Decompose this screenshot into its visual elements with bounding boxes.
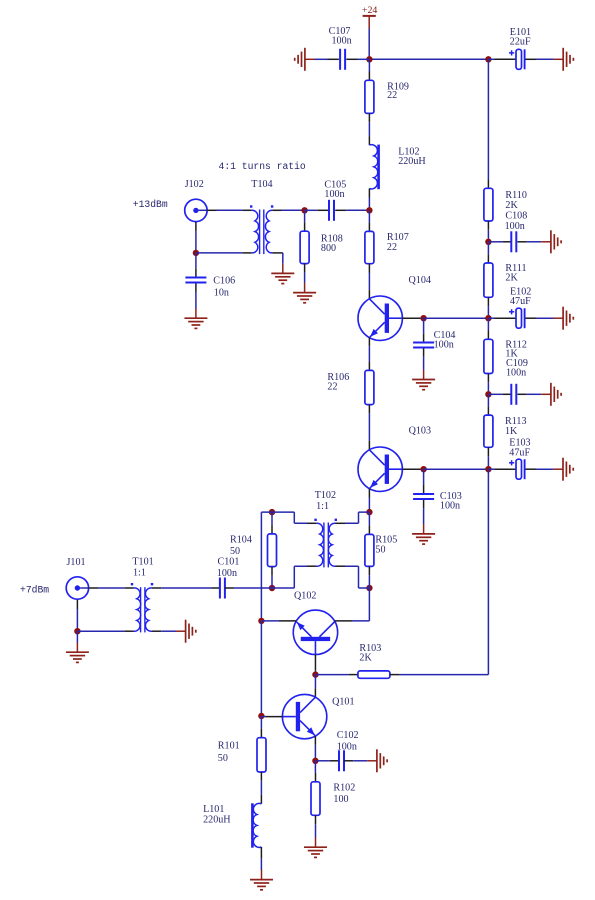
wire node J down to R105 bbox=[368, 512, 370, 526]
ground right of E102 bbox=[554, 307, 574, 330]
ground right of T101 bbox=[176, 620, 196, 643]
capacitor C106 bbox=[185, 278, 206, 283]
wire R107 to Q104 collector bbox=[368, 273, 370, 291]
node B junction top rail right bbox=[485, 56, 491, 62]
wire T104 secondary to node D bbox=[282, 209, 305, 211]
svg-text:220uH: 220uH bbox=[398, 156, 425, 167]
pin R106 pin 1 bbox=[368, 362, 370, 371]
svg-text:J101: J101 bbox=[67, 557, 86, 568]
wire C103 to ground bbox=[423, 508, 425, 524]
wire C102 to ground bbox=[353, 760, 367, 762]
wire node T to R103 bbox=[315, 674, 348, 676]
wire node C down to R107 bbox=[368, 210, 370, 222]
pin R104 pin 2 bbox=[271, 567, 273, 576]
wire C104 to ground bbox=[423, 357, 425, 370]
node L junction C109 bbox=[485, 391, 491, 397]
ground below J101 bbox=[66, 642, 89, 662]
pin L102 pin 1 bbox=[368, 136, 370, 145]
svg-text:100n: 100n bbox=[217, 568, 237, 579]
wire node R down to R101 bbox=[260, 716, 262, 729]
svg-text:2K: 2K bbox=[359, 653, 372, 664]
pin R109 pin 2 bbox=[368, 113, 370, 122]
svg-text:50: 50 bbox=[230, 546, 240, 557]
wire T101 secondary to C101 bbox=[161, 587, 211, 589]
ground right of C109 bbox=[541, 383, 561, 406]
pin Q104 emitter pin bbox=[368, 337, 370, 346]
pin R113 pin 2 bbox=[487, 447, 489, 456]
ground below C106 bbox=[184, 308, 207, 328]
node S junction below J101 bbox=[74, 628, 80, 634]
resistor R107 bbox=[365, 231, 374, 263]
pin E102 negative pin bbox=[526, 317, 537, 319]
pin J102 signal pin bbox=[207, 209, 216, 211]
pin R112 pin 2 bbox=[487, 374, 489, 383]
ground right of C102 bbox=[367, 749, 387, 772]
wire node I to E103 bbox=[488, 468, 494, 470]
wire R106 to Q103 collector bbox=[368, 413, 370, 441]
pin R103 pin 1 bbox=[349, 674, 358, 676]
svg-text:22uF: 22uF bbox=[510, 37, 531, 48]
pin L101 pin 2 bbox=[260, 847, 262, 858]
svg-text:22: 22 bbox=[327, 382, 337, 393]
pin Q102 emitter pin bbox=[279, 620, 296, 622]
capacitor C105 bbox=[329, 200, 334, 221]
svg-text:R104: R104 bbox=[230, 534, 252, 545]
pin C106 pin 1 bbox=[195, 268, 197, 276]
wire node K down to R111 bbox=[487, 242, 489, 254]
node N junction T102 left bottom bbox=[269, 585, 275, 591]
wire R108 to ground bbox=[304, 272, 306, 283]
wire node U to C102 bbox=[315, 760, 330, 762]
wire J101 to T101 primary top bbox=[98, 587, 125, 589]
inductor L102 bbox=[369, 145, 378, 190]
resistor R105 bbox=[365, 534, 374, 566]
pin T104 secondary top pin bbox=[272, 209, 281, 211]
wire Q104 base to node F bbox=[420, 317, 424, 319]
wire node N jog to T102 primary bottom bbox=[272, 566, 307, 588]
wire E103 to ground bbox=[536, 468, 553, 470]
svg-text:1K: 1K bbox=[505, 426, 518, 437]
wire Q101 base to node R bbox=[261, 715, 265, 718]
pin C104 pin 1 bbox=[423, 334, 425, 342]
wire T101 secondary bottom to ground bbox=[161, 630, 176, 632]
transistor Q101 bbox=[282, 694, 326, 738]
node C junction main line bbox=[366, 207, 372, 213]
pin R111 pin 1 bbox=[487, 254, 489, 263]
wire C106 to ground bbox=[195, 292, 197, 309]
node T junction R103 bbox=[312, 671, 318, 677]
pin T101 secondary bottom pin bbox=[152, 630, 161, 632]
wire node L down to R113 bbox=[487, 394, 489, 406]
svg-text:4:1 turns ratio: 4:1 turns ratio bbox=[219, 161, 306, 172]
wire T104 secondary bottom to ground bbox=[282, 253, 284, 264]
pin T102 secondary top pin bbox=[336, 522, 346, 524]
svg-text:Q104: Q104 bbox=[409, 275, 431, 286]
pin R104 pin 1 bbox=[271, 525, 273, 534]
node K junction C108 bbox=[485, 239, 491, 245]
pin E101 negative pin bbox=[526, 58, 537, 60]
wire C109 to ground bbox=[526, 393, 541, 395]
pin C106 pin 2 bbox=[195, 284, 197, 293]
pin R105 pin 2 bbox=[368, 566, 370, 575]
pin R112 pin 1 bbox=[487, 331, 489, 340]
svg-text:L101: L101 bbox=[203, 804, 224, 815]
wire node D down to R108 bbox=[304, 210, 306, 222]
pin R105 pin 1 bbox=[368, 526, 370, 535]
wire node U down to R102 bbox=[314, 761, 316, 773]
pin C109 pin 1 bbox=[503, 393, 512, 395]
capacitor C102 bbox=[339, 750, 344, 771]
wire J102 tip to T104 bbox=[199, 209, 208, 211]
wire node J jog to T102 secondary top bbox=[345, 512, 369, 523]
resistor R110 bbox=[484, 188, 493, 221]
wire node K to C108 bbox=[488, 241, 502, 243]
ground left of C107 bbox=[295, 48, 315, 71]
pin T101 secondary top pin bbox=[152, 587, 161, 589]
svg-text:2K: 2K bbox=[505, 273, 518, 284]
wire node E to T104 primary bottom bbox=[196, 252, 243, 254]
pin R108 pin 2 bbox=[304, 264, 306, 273]
pin R108 pin 1 bbox=[304, 222, 306, 231]
connector J102 bbox=[185, 199, 207, 221]
pin R102 pin 1 bbox=[315, 773, 317, 782]
capacitor C108 bbox=[511, 231, 516, 252]
pin C104 pin 2 bbox=[423, 348, 425, 356]
pin Q101 collector pin bbox=[314, 688, 316, 697]
power +24 symbol bbox=[363, 16, 376, 29]
wire Q104 emitter to R106 bbox=[368, 346, 370, 361]
wire Q102 collector to node P bbox=[352, 588, 369, 621]
pin R107 pin 1 bbox=[368, 223, 370, 232]
pin T102 secondary bottom pin bbox=[336, 565, 346, 567]
ground right of C108 bbox=[541, 230, 561, 253]
wire R113 to node I bbox=[487, 456, 489, 469]
node A junction top rail left bbox=[366, 56, 372, 62]
wire J102 shield to node E bbox=[195, 231, 197, 253]
pin C101 pin 1 bbox=[212, 587, 220, 589]
pin C103 pin 1 bbox=[423, 485, 425, 493]
resistor R113 bbox=[484, 415, 493, 447]
pin E103 negative pin bbox=[526, 468, 537, 470]
pin C105 pin 1 bbox=[317, 209, 328, 211]
wire node M jog to T102 primary top bbox=[272, 512, 307, 523]
resistor R108 bbox=[300, 231, 309, 263]
svg-text:100n: 100n bbox=[434, 340, 454, 351]
wire node M down to R104 bbox=[271, 512, 273, 525]
wire J101 shield to node S bbox=[76, 609, 78, 631]
pin E103 positive pin bbox=[495, 468, 517, 470]
node M junction T102 left top bbox=[269, 509, 275, 515]
pin R113 pin 1 bbox=[487, 406, 489, 415]
wire R101 to L101 bbox=[260, 781, 262, 795]
svg-text:100n: 100n bbox=[324, 189, 344, 200]
ground below L101 bbox=[250, 870, 273, 890]
wire node T down to Q101 collector bbox=[314, 675, 316, 689]
pin E101 positive pin bbox=[495, 58, 517, 60]
svg-text:800: 800 bbox=[321, 243, 336, 254]
wire L102 to node C bbox=[368, 198, 370, 211]
ground right of E101 bbox=[554, 48, 574, 71]
wire Q101 emitter to node U bbox=[314, 745, 316, 761]
pin T104 primary top pin bbox=[243, 209, 252, 211]
wire node F down to C104 bbox=[423, 318, 425, 334]
svg-text:Q102: Q102 bbox=[294, 590, 316, 601]
node H junction C103 bbox=[420, 466, 426, 472]
svg-text:+13dBm: +13dBm bbox=[133, 199, 168, 210]
wire R104 to node N bbox=[271, 575, 273, 588]
pin J101 signal pin bbox=[89, 587, 98, 589]
wire node H down to C103 bbox=[423, 469, 425, 484]
node G junction E102 bbox=[485, 315, 491, 321]
node R junction Q101 base bbox=[258, 713, 264, 719]
pin C108 pin 1 bbox=[503, 241, 512, 243]
svg-text:100: 100 bbox=[333, 794, 348, 805]
svg-text:1:1: 1:1 bbox=[316, 501, 329, 512]
svg-text:T102: T102 bbox=[315, 490, 336, 501]
svg-text:T101: T101 bbox=[132, 557, 153, 568]
capacitor E103 bbox=[509, 459, 525, 479]
pin R109 pin 1 bbox=[368, 72, 370, 81]
svg-text:100n: 100n bbox=[505, 221, 525, 232]
pin C102 pin 2 bbox=[344, 760, 353, 762]
wire R112 to node L bbox=[487, 382, 489, 394]
wire node L to C109 bbox=[488, 393, 502, 395]
pin Q103 emitter pin bbox=[368, 489, 370, 498]
wire top rail node A to node B bbox=[369, 58, 488, 60]
svg-text:+7dBm: +7dBm bbox=[20, 584, 49, 595]
inductor L101 bbox=[252, 803, 261, 847]
pin C109 pin 2 bbox=[518, 393, 527, 395]
resistor R102 bbox=[311, 782, 320, 816]
wire L101 to ground bbox=[260, 858, 262, 870]
capacitor C103 bbox=[413, 494, 434, 499]
pin Q102 base pin bbox=[314, 655, 316, 671]
resistor R112 bbox=[484, 339, 493, 373]
wire node G to E102 bbox=[488, 317, 494, 319]
resistor R111 bbox=[484, 263, 493, 297]
wire R111 to node G bbox=[487, 306, 489, 318]
node D junction R108/C105 bbox=[301, 207, 307, 213]
pin R102 pin 2 bbox=[315, 815, 317, 824]
svg-text:C102: C102 bbox=[337, 730, 359, 741]
svg-text:C106: C106 bbox=[213, 275, 235, 286]
wire node P jog to T102 secondary bottom bbox=[345, 566, 369, 588]
pin C103 pin 2 bbox=[423, 500, 425, 508]
svg-text:50: 50 bbox=[375, 544, 385, 555]
connector J101 bbox=[66, 577, 88, 599]
svg-text:R101: R101 bbox=[218, 741, 240, 752]
svg-text:J102: J102 bbox=[185, 179, 204, 190]
svg-text:R102: R102 bbox=[333, 783, 355, 794]
svg-text:2K: 2K bbox=[505, 200, 518, 211]
ground below T104 secondary bbox=[271, 264, 294, 284]
wire node S to ground bbox=[76, 631, 78, 642]
node P junction T102 right bottom bbox=[366, 585, 372, 591]
wire Q103 emitter to node J bbox=[368, 498, 370, 513]
ground below C103 bbox=[412, 524, 435, 544]
svg-text:C101: C101 bbox=[218, 556, 240, 567]
pin Q103 collector pin bbox=[368, 441, 370, 450]
svg-text:100n: 100n bbox=[332, 35, 352, 46]
capacitor C107 bbox=[340, 49, 345, 70]
node I junction E103 bbox=[485, 466, 491, 472]
pin C102 pin 1 bbox=[330, 760, 339, 762]
pin T101 primary bottom pin bbox=[125, 630, 134, 632]
svg-text:100n: 100n bbox=[440, 501, 460, 512]
resistor R101 bbox=[257, 738, 266, 772]
pin C108 pin 2 bbox=[518, 241, 527, 243]
transformer T101 bbox=[131, 583, 153, 632]
ground right of E103 bbox=[553, 458, 573, 481]
wire node A down to R109 bbox=[368, 59, 370, 71]
wire C105 to node C bbox=[346, 209, 369, 211]
capacitor C101 bbox=[220, 578, 225, 599]
pin C101 pin 2 bbox=[225, 587, 234, 589]
transformer T102 bbox=[314, 519, 337, 568]
pin J101 shield pin bbox=[76, 600, 78, 609]
wire node Q down to node R bbox=[260, 621, 262, 716]
pin T104 primary bottom pin bbox=[243, 252, 252, 254]
node U junction C102 bbox=[312, 758, 318, 764]
svg-text:C108: C108 bbox=[505, 211, 527, 222]
svg-text:47uF: 47uF bbox=[509, 448, 530, 459]
wire C101 to node N bbox=[234, 587, 272, 589]
transistor Q103 bbox=[358, 447, 402, 491]
pin Q104 collector pin bbox=[368, 290, 370, 299]
capacitor E102 bbox=[509, 308, 525, 328]
node F junction C104 bbox=[420, 315, 426, 321]
svg-text:220uH: 220uH bbox=[203, 815, 230, 826]
ground below R102 bbox=[304, 837, 327, 857]
wire E101 to ground bbox=[536, 58, 554, 60]
pin Q101 emitter pin bbox=[314, 736, 316, 745]
pin Q104 base pin bbox=[402, 317, 420, 319]
svg-text:22: 22 bbox=[387, 242, 397, 253]
svg-text:100n: 100n bbox=[506, 368, 526, 379]
pin R107 pin 2 bbox=[368, 264, 370, 273]
pin R110 pin 1 bbox=[487, 180, 489, 189]
resistor R109 bbox=[365, 80, 374, 113]
pin C105 pin 2 bbox=[335, 209, 346, 211]
svg-text:Q103: Q103 bbox=[409, 426, 431, 437]
wire J101 tip out bbox=[80, 587, 89, 589]
capacitor C104 bbox=[413, 342, 434, 347]
capacitor E101 bbox=[509, 49, 525, 69]
wire R109 to L102 bbox=[368, 122, 370, 136]
wire node B down to R110 bbox=[487, 59, 489, 179]
wire R110 to node K bbox=[487, 230, 489, 242]
pin Q102 collector pin bbox=[335, 620, 353, 622]
pin R101 pin 2 bbox=[260, 772, 262, 781]
wire node G down to R112 bbox=[487, 318, 489, 330]
svg-text:Q101: Q101 bbox=[332, 697, 354, 708]
node E junction below J102 bbox=[193, 250, 199, 256]
wire C108 to ground bbox=[526, 241, 541, 243]
svg-text:T104: T104 bbox=[251, 179, 272, 190]
pin E102 positive pin bbox=[495, 317, 517, 319]
pin L101 pin 1 bbox=[260, 795, 262, 804]
wire node H to node I bbox=[424, 468, 489, 470]
pin R106 pin 2 bbox=[368, 405, 370, 414]
capacitor C109 bbox=[511, 384, 516, 405]
svg-text:1:1: 1:1 bbox=[133, 568, 146, 579]
ground below C104 bbox=[412, 370, 435, 390]
wire node M to left column bbox=[261, 512, 272, 621]
wire R102 to ground bbox=[315, 824, 317, 837]
wire node I down to R103 corner bbox=[399, 469, 488, 674]
transistor Q104 bbox=[358, 296, 402, 340]
wire Q103 base to node H bbox=[420, 468, 424, 470]
resistor R104 bbox=[268, 534, 277, 567]
pin R101 pin 1 bbox=[260, 729, 262, 738]
svg-text:10n: 10n bbox=[214, 287, 229, 298]
svg-text:22: 22 bbox=[387, 90, 397, 101]
wire R105 to node P bbox=[368, 575, 370, 588]
wire node D to C105 bbox=[305, 209, 318, 211]
wire Q102 base to node T bbox=[314, 671, 316, 675]
transistor Q102 bbox=[293, 610, 337, 654]
pin T102 primary top pin bbox=[307, 522, 316, 524]
pin L102 pin 2 bbox=[368, 189, 370, 198]
wire +24 stem to top rail bbox=[368, 29, 370, 60]
wire node B to E101 bbox=[488, 58, 494, 60]
pin C107 pin 2 bbox=[346, 58, 357, 60]
pin T104 secondary bottom pin bbox=[272, 252, 282, 254]
node J junction T102 right top bbox=[366, 509, 372, 515]
resistor R106 bbox=[365, 370, 374, 404]
pin T102 primary bottom pin bbox=[307, 565, 316, 567]
pin R111 pin 2 bbox=[487, 297, 489, 306]
pin J102 shield pin bbox=[195, 222, 197, 231]
pin Q103 base pin bbox=[402, 468, 420, 470]
wire E102 to ground bbox=[536, 317, 554, 319]
wire node F to node G bbox=[424, 317, 489, 319]
wire J102 to T104 primary top bbox=[217, 209, 243, 211]
wire C107 to node A bbox=[358, 58, 370, 60]
svg-text:50: 50 bbox=[218, 753, 228, 764]
pin C107 pin 1 bbox=[328, 58, 339, 60]
wire node E down to C106 bbox=[195, 253, 197, 268]
pin T101 primary top pin bbox=[125, 587, 134, 589]
node Q junction Q102 emitter bbox=[258, 618, 264, 624]
wire node S to T101 primary bottom bbox=[77, 630, 124, 632]
svg-text:47uF: 47uF bbox=[510, 296, 531, 307]
svg-text:+24: +24 bbox=[362, 5, 378, 16]
pin Q101 base pin bbox=[266, 716, 283, 718]
svg-text:100n: 100n bbox=[337, 742, 357, 753]
resistor R103 bbox=[358, 671, 390, 678]
transformer T104 bbox=[250, 205, 273, 254]
pin R103 pin 2 bbox=[390, 674, 399, 676]
ground below R108 bbox=[293, 283, 316, 303]
wire Q102 emitter to node Q bbox=[261, 620, 279, 622]
pin R110 pin 2 bbox=[487, 221, 489, 230]
wire C107 ground lead bbox=[315, 58, 328, 60]
